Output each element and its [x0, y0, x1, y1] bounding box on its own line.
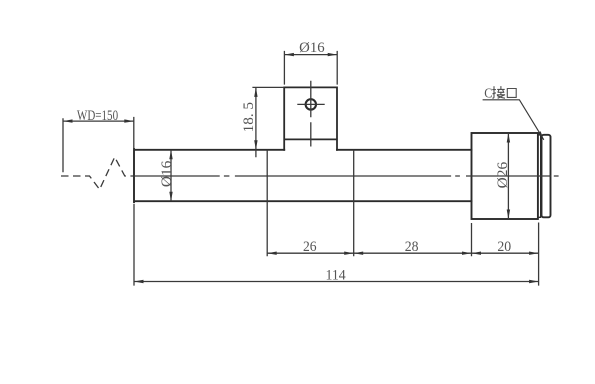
dimension Ø16 (top, boss width): [284, 51, 337, 85]
main horizontal centerline: [134, 175, 559, 177]
hanzi 接: [492, 86, 496, 98]
svg-text:Ø26: Ø26: [495, 162, 511, 189]
dimension WD=150: [63, 117, 134, 172]
boss centerline vertical: [310, 81, 312, 147]
main tube body outline (Ø16 barrel): [134, 149, 472, 202]
svg-text:114: 114: [326, 268, 346, 284]
svg-text:Ø16: Ø16: [299, 40, 325, 56]
rear flange narrow band: [538, 135, 541, 217]
svg-text:WD=150: WD=150: [77, 108, 118, 124]
label C接口 (C-mount) leader line: [483, 100, 544, 140]
dimension 18.5 (vertical, boss height): [252, 87, 284, 157]
svg-text:18. 5: 18. 5: [241, 102, 257, 132]
dimension line 26 / 28 / 20: [267, 252, 538, 254]
dimension 114 (overall length): [134, 281, 539, 283]
svg-text:20: 20: [497, 239, 511, 255]
svg-text:Ø16: Ø16: [159, 161, 175, 188]
dimension Ø16 (left tube diameter): [170, 150, 172, 201]
svg-text:C: C: [484, 86, 492, 101]
boss hole circle: [306, 99, 316, 109]
boss centerline horizontal: [297, 103, 324, 105]
rear C-mount ring (rounded): [542, 135, 551, 218]
left dashed break line with zigzag: [61, 157, 134, 189]
hanzi 口: [507, 89, 516, 98]
dimension Ø26 (right cylinder diameter): [507, 133, 509, 219]
right cylinder (Ø26 section): [472, 133, 538, 219]
extension lines for bottom dimensions: [134, 150, 539, 286]
top boss block (vertical port): [284, 87, 337, 149]
svg-text:28: 28: [405, 239, 419, 255]
svg-text:26: 26: [303, 239, 317, 255]
